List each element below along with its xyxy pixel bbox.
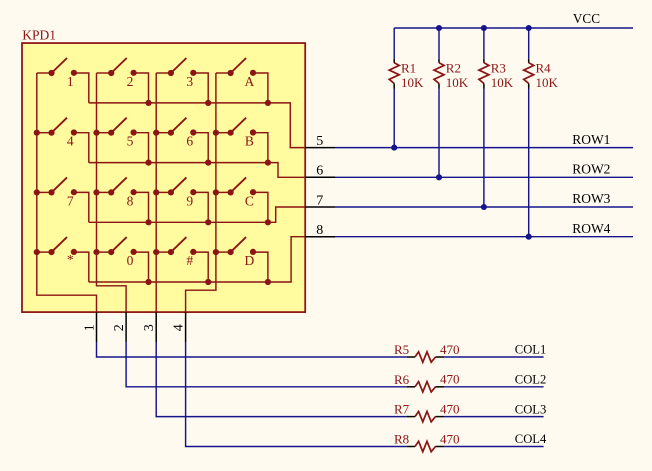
svg-text:KPD1: KPD1 (22, 28, 56, 43)
switch C (row 3, col 4) (216, 177, 268, 222)
svg-text:8: 8 (316, 223, 323, 238)
svg-text:470: 470 (440, 401, 460, 416)
junction rail 3 / row 3 (153, 189, 159, 195)
svg-text:1: 1 (83, 324, 98, 331)
wire ROW1 (335, 147, 633, 149)
svg-text:R2: R2 (446, 60, 461, 75)
svg-text:COL4: COL4 (515, 432, 547, 446)
svg-text:R1: R1 (401, 60, 416, 75)
wire ROW2 (335, 176, 633, 178)
wire row bus 3 (89, 207, 305, 222)
wire column rail 3 (155, 73, 157, 312)
junction rail 2 / row 3 (93, 189, 99, 195)
switch 3 (row 1, col 3) (156, 58, 208, 103)
switch 0 (row 4, col 2) (97, 237, 149, 282)
switch D (row 4, col 4) (216, 237, 268, 282)
junction rail 3 / row 4 (153, 249, 159, 255)
svg-text:ROW4: ROW4 (572, 221, 610, 236)
svg-text:3: 3 (142, 324, 157, 331)
junction rail 1 / row 2 (34, 130, 40, 136)
svg-text:0: 0 (127, 253, 134, 268)
svg-text:2: 2 (127, 74, 134, 89)
wire row bus 1 (89, 103, 305, 148)
wire row bus 4 (89, 237, 305, 282)
wire ROW4 (335, 236, 633, 238)
junction bus 2 / col 4 (265, 160, 271, 166)
junction bus 4 / col 3 (205, 279, 211, 285)
svg-text:COL3: COL3 (515, 402, 546, 416)
switch 4 (row 2, col 1) (37, 118, 89, 163)
svg-text:4: 4 (172, 324, 187, 331)
svg-text:6: 6 (316, 164, 323, 179)
switch 5 (row 2, col 2) (97, 118, 149, 163)
junction bus 3 / col 2 (145, 219, 151, 225)
svg-text:COL1: COL1 (515, 343, 546, 357)
svg-text:COL2: COL2 (515, 373, 546, 387)
wire column rail 1 (37, 73, 97, 312)
junction VCC / R2 (436, 25, 442, 31)
junction rail 3 / row 2 (153, 130, 159, 136)
pin 7 (305, 206, 335, 208)
junction bus 4 / col 4 (265, 279, 271, 285)
svg-text:VCC: VCC (573, 11, 600, 26)
svg-text:2: 2 (112, 324, 127, 331)
pin 1 (96, 312, 98, 342)
wire COL1 from pin 1 (97, 342, 407, 357)
junction rail 4 / row 3 (213, 189, 219, 195)
svg-text:R8: R8 (394, 432, 409, 447)
junction bus 2 / col 3 (205, 160, 211, 166)
resistor R8 470 (394, 431, 460, 451)
junction rail 4 / row 4 (213, 249, 219, 255)
svg-text:10K: 10K (401, 75, 424, 90)
resistor R1 10K (389, 28, 424, 148)
switch 2 (row 1, col 2) (97, 58, 149, 103)
junction VCC / R3 (481, 25, 487, 31)
svg-text:6: 6 (186, 134, 193, 149)
junction rail 4 / row 2 (213, 130, 219, 136)
junction bus 3 / col 4 (265, 219, 271, 225)
svg-text:R5: R5 (394, 342, 409, 357)
junction rail 2 / row 2 (93, 130, 99, 136)
junction bus 4 / col 2 (145, 279, 151, 285)
wire column rail 4 (186, 73, 216, 312)
switch 1 (row 1, col 1) (37, 58, 89, 103)
switch B (row 2, col 4) (216, 118, 268, 163)
junction bus 2 / col 2 (145, 160, 151, 166)
svg-text:470: 470 (440, 431, 460, 446)
svg-text:4: 4 (67, 134, 74, 149)
svg-text:1: 1 (67, 74, 74, 89)
svg-text:7: 7 (67, 193, 74, 208)
junction R4 / ROW4 (526, 234, 532, 240)
wire COL4 from pin 4 (186, 342, 407, 447)
junction bus 1 / col 3 (205, 100, 211, 106)
switch * (row 4, col 1) (37, 237, 89, 282)
svg-text:ROW2: ROW2 (572, 162, 610, 177)
switch # (row 4, col 3) (156, 237, 208, 282)
svg-text:10K: 10K (491, 75, 514, 90)
wire COL1 output (444, 356, 543, 358)
svg-text:10K: 10K (536, 75, 559, 90)
svg-text:470: 470 (440, 342, 460, 357)
svg-text:B: B (245, 134, 254, 149)
svg-text:ROW1: ROW1 (572, 132, 610, 147)
switch 6 (row 2, col 3) (156, 118, 208, 163)
svg-text:ROW3: ROW3 (572, 191, 610, 206)
pin 2 (125, 312, 127, 342)
svg-text:R3: R3 (491, 60, 506, 75)
resistor R3 10K (479, 28, 514, 207)
svg-text:5: 5 (316, 134, 323, 149)
svg-text:#: # (186, 253, 193, 268)
wire COL2 from pin 2 (126, 342, 407, 387)
pin 8 (305, 236, 335, 238)
svg-text:9: 9 (186, 193, 193, 208)
resistor R7 470 (394, 401, 460, 421)
svg-text:D: D (245, 253, 255, 268)
junction rail 1 / row 3 (34, 189, 40, 195)
wire ROW3 (335, 206, 633, 208)
svg-text:R6: R6 (394, 372, 410, 387)
svg-text:470: 470 (440, 372, 460, 387)
pin 4 (185, 312, 187, 342)
keypad KPD1 body (22, 43, 305, 312)
junction R2 / ROW2 (436, 174, 442, 180)
wire column rail 2 (97, 73, 127, 312)
pin 3 (155, 312, 157, 342)
switch 7 (row 3, col 1) (37, 177, 89, 222)
wire VCC rail (394, 27, 633, 29)
pin 6 (305, 176, 335, 178)
switch A (row 1, col 4) (216, 58, 268, 103)
svg-text:C: C (245, 193, 254, 208)
resistor R4 10K (524, 28, 559, 237)
junction rail 1 / row 4 (34, 249, 40, 255)
junction bus 3 / col 3 (205, 219, 211, 225)
svg-text:10K: 10K (446, 75, 469, 90)
svg-text:5: 5 (127, 134, 134, 149)
wire COL3 output (444, 416, 543, 418)
resistor R6 470 (394, 372, 460, 392)
svg-text:3: 3 (186, 74, 193, 89)
junction rail 2 / row 4 (93, 249, 99, 255)
switch 8 (row 3, col 2) (97, 177, 149, 222)
svg-text:8: 8 (127, 193, 134, 208)
pin 5 (305, 147, 335, 149)
wire row bus 2 (89, 163, 305, 178)
junction bus 1 / col 2 (145, 100, 151, 106)
resistor R2 10K (434, 28, 469, 177)
wire COL2 output (444, 386, 543, 388)
junction VCC / R4 (526, 25, 532, 31)
svg-text:R4: R4 (536, 60, 552, 75)
svg-text:R7: R7 (394, 402, 410, 417)
junction R3 / ROW3 (481, 204, 487, 210)
junction bus 1 / col 4 (265, 100, 271, 106)
switch 9 (row 3, col 3) (156, 177, 208, 222)
wire COL3 from pin 3 (156, 342, 407, 417)
junction R1 / ROW1 (391, 145, 397, 151)
svg-text:*: * (67, 252, 74, 267)
svg-text:7: 7 (316, 193, 323, 208)
wire COL4 output (444, 446, 543, 448)
resistor R5 470 (394, 342, 460, 362)
svg-text:A: A (245, 74, 255, 89)
